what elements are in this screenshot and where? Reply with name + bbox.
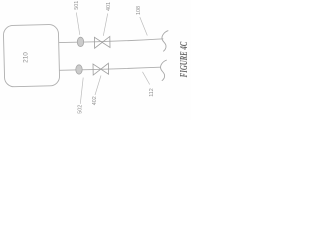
svg-text:210: 210 bbox=[23, 52, 30, 63]
svg-text:108: 108 bbox=[136, 6, 142, 15]
svg-text:112: 112 bbox=[149, 88, 155, 97]
svg-text:501: 501 bbox=[74, 1, 80, 10]
svg-text:402: 402 bbox=[92, 96, 98, 105]
svg-text:FIGURE 4C: FIGURE 4C bbox=[177, 41, 189, 78]
svg-text:401: 401 bbox=[106, 2, 112, 11]
svg-text:502: 502 bbox=[77, 105, 83, 114]
